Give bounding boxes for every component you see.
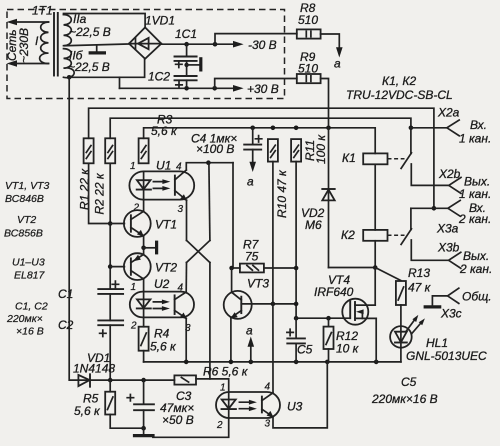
contact K1.1 lower (411, 164, 449, 185)
node U1 pin4 branch (206, 160, 211, 165)
wire pin4 branch down to crossing (209, 163, 210, 241)
svg-text:1: 1 (220, 383, 226, 394)
contact K1.1 upper (410, 128, 412, 154)
wire center tap to bridge left vertex (65, 44, 130, 46)
svg-text:47 к: 47 к (408, 281, 432, 295)
capacitor C5 (295, 318, 297, 338)
wire X3a (411, 207, 448, 209)
svg-text:R4: R4 (154, 327, 170, 341)
svg-text:510: 510 (298, 62, 318, 76)
svg-text:ВС846В: ВС846В (5, 193, 44, 205)
transformer secondary winding IIb (64, 49, 75, 78)
svg-text:Вх.: Вх. (470, 118, 487, 132)
resistor R7 (232, 267, 240, 269)
crossing wires (187, 240, 210, 262)
svg-text:IRF640: IRF640 (314, 285, 354, 299)
wire U1 pin4 to R7 column (186, 163, 233, 170)
svg-text:1С2: 1С2 (148, 70, 170, 84)
svg-text:Вых.: Вых. (463, 249, 489, 263)
polarity + (1C1) (176, 61, 182, 67)
transformer core (53, 13, 55, 76)
capacitor C1 (98, 288, 123, 290)
U2 phototransistor (174, 295, 176, 314)
wire secondary bottom to bridge bottom (69, 59, 144, 78)
contact K1.1 arm (401, 153, 411, 169)
svg-text:220мк×16 В: 220мк×16 В (371, 392, 438, 406)
svg-text:1 кан.: 1 кан. (459, 132, 491, 146)
arrow -30V (233, 41, 244, 48)
svg-text:С2: С2 (58, 318, 74, 332)
capacitor C2 (98, 319, 123, 321)
wire R11 column down (295, 162, 297, 318)
wire VT3 base to R11 column (241, 303, 296, 305)
svg-text:ВС856В: ВС856В (4, 228, 43, 240)
resistor R4 (139, 327, 149, 351)
wire crossing down to R6 node (209, 263, 211, 379)
svg-text:100 к: 100 к (314, 134, 328, 164)
wire primary top (16, 21, 49, 23)
resistor R11 (291, 139, 301, 162)
node caps midpoint stub (184, 63, 188, 67)
wire secondary top to bridge (64, 14, 146, 28)
common rail (144, 361, 401, 363)
relay coil K2 (363, 230, 387, 241)
node +30V riser (212, 86, 217, 91)
svg-text:×50 В: ×50 В (162, 413, 194, 427)
wire drain node to R13 (375, 268, 401, 281)
svg-text:С1, С2: С1, С2 (15, 301, 48, 313)
wire bus 2 (R2 to X2a column) (110, 118, 411, 138)
node rail VT3 emitter (229, 360, 234, 365)
node rail VT4 source (374, 360, 379, 365)
svg-text:С5: С5 (401, 375, 417, 389)
node: secondary bottom junction (67, 75, 72, 80)
svg-text:VT2: VT2 (17, 214, 36, 226)
wire U3 pin2 to chassis (153, 418, 229, 437)
svg-text:U1: U1 (156, 159, 171, 173)
wire VD1 to R6 (90, 379, 174, 381)
center tap stub (96, 45, 98, 52)
arrow node a (top) (336, 47, 343, 57)
svg-text:10 к: 10 к (336, 342, 360, 356)
resistor R10 (268, 139, 278, 162)
wire -30V to R8 (215, 34, 297, 45)
svg-text:~22,5 В: ~22,5 В (69, 25, 111, 39)
node rail R12 (325, 360, 330, 365)
node R7 right (294, 266, 299, 271)
dashed actuator link K1 (388, 158, 405, 160)
node C4 on bus 3 (250, 126, 255, 131)
diode VD1 (78, 375, 89, 386)
chassis terminal (143, 428, 145, 435)
svg-text:R6 5,6 к: R6 5,6 к (203, 365, 249, 379)
dashed actuator link K2 (388, 234, 405, 236)
node C3 top (141, 378, 146, 383)
svg-text:R2 22 к: R2 22 к (93, 172, 107, 214)
U3 coupling arrows (239, 402, 251, 409)
contact K2.1 lower (411, 240, 448, 260)
svg-text:U3: U3 (287, 400, 303, 414)
svg-text:4: 4 (176, 162, 182, 173)
terminal X3a fork (448, 200, 460, 216)
bridge rectifier 1VD1 (129, 27, 161, 58)
resistor R3 (139, 138, 149, 163)
U2 LED (143, 292, 145, 309)
wire +30V to R9 (215, 79, 297, 89)
svg-text:I: I (35, 34, 39, 48)
svg-text:U1–U3: U1–U3 (12, 257, 45, 269)
wire VT2 emitter to U2 pin1 (143, 279, 145, 291)
wire R2 column upper (109, 163, 111, 289)
resistor R13 (396, 281, 406, 305)
svg-text:1С1: 1С1 (175, 27, 197, 41)
svg-text:4: 4 (265, 382, 271, 393)
wire R6 to U3 pin1 (196, 379, 229, 392)
capacitor C3 (143, 380, 145, 404)
node R10 on bus 3 (271, 126, 276, 131)
wire C1 to C2 (109, 294, 111, 321)
svg-text:EL817: EL817 (14, 270, 46, 282)
svg-text:VT1: VT1 (155, 218, 177, 232)
wire VD2 to drain junction (329, 267, 376, 269)
midpoint terminal bar (199, 57, 202, 71)
wire U1 pin3 down to crossing (186, 200, 188, 240)
svg-text:К2: К2 (341, 228, 355, 242)
junction stub terminal (144, 247, 157, 249)
node R5 top (108, 378, 113, 383)
transistor VT1 (124, 210, 151, 237)
svg-text:VT1, VT3: VT1, VT3 (5, 180, 50, 192)
U3 LED (228, 392, 230, 409)
resistor R5 (109, 380, 111, 392)
diode VD2 (328, 128, 330, 268)
node X3a junction (432, 206, 437, 211)
svg-text:2 кан.: 2 кан. (458, 212, 491, 226)
resistor R9 (297, 74, 321, 83)
svg-text:~22,5 В: ~22,5 В (68, 60, 110, 74)
node VT2 base (108, 264, 113, 269)
wire X2a (411, 127, 447, 129)
transistor VT2 (124, 253, 151, 280)
U1 coupling arrows (153, 182, 165, 189)
svg-text:X3b: X3b (437, 241, 460, 255)
svg-text:4: 4 (178, 283, 184, 294)
wire K1 to K2 coil (374, 164, 376, 230)
svg-text:3: 3 (178, 204, 184, 215)
svg-text:R10 47 к: R10 47 к (275, 169, 289, 218)
mains terminal arrows (Сеть ~230В) (7, 19, 18, 26)
wire VT3 collector (231, 268, 233, 292)
wire C2 down to VD1 line (109, 325, 111, 380)
wire bus 1 (R1 to X3a column) (89, 108, 434, 208)
wire VT4 source to rail (375, 318, 377, 362)
svg-text:а: а (247, 175, 254, 189)
node rail C5 (294, 360, 299, 365)
wire VT1 emitter down (143, 236, 145, 254)
arrow node a (C4) (249, 162, 256, 172)
HL1 emission arrows (406, 319, 421, 333)
wire U1 pin4 column down to R7 (232, 163, 234, 268)
resistor R1 (84, 138, 94, 163)
svg-text:VT2: VT2 (155, 261, 177, 275)
node VT3 base / R11 (294, 302, 299, 307)
svg-text:М6: М6 (305, 218, 322, 232)
svg-text:×100 В: ×100 В (196, 142, 234, 156)
node rail a-arrow (249, 360, 254, 365)
arrow node a (VT3) (250, 344, 252, 362)
svg-text:U2: U2 (154, 277, 170, 291)
capacitor 1C1 (186, 44, 188, 56)
svg-text:С5: С5 (297, 343, 313, 357)
wire U2 pin3 to common rail (185, 318, 187, 362)
svg-text:X3а: X3а (436, 222, 459, 236)
node VT1 base (108, 221, 113, 226)
svg-text:220мк×: 220мк× (6, 313, 43, 325)
wire R7 right to R11 column (264, 267, 296, 269)
resistor R2 (105, 138, 115, 163)
resistor R6 (174, 375, 196, 384)
svg-text:TRU-12VDC-SB-CL: TRU-12VDC-SB-CL (346, 88, 453, 102)
wire R4 to common rail start (143, 351, 145, 362)
resistor R12 (324, 327, 334, 349)
bridge internal diode (129, 43, 161, 45)
wire VT3 emitter to rail (230, 318, 232, 362)
node 1C2 bottom (184, 86, 189, 91)
terminal X3c bar (424, 305, 442, 308)
resistor R8 (297, 29, 321, 38)
svg-text:2: 2 (216, 420, 223, 431)
node VD2 on bus 3 (326, 126, 331, 131)
wire U3 pin3 to rail (273, 362, 327, 428)
wire long left vertical from transformer (69, 77, 90, 380)
svg-text:1: 1 (131, 282, 137, 293)
wire VT1 collector to U1 pin2 (143, 200, 145, 212)
wire gate net (296, 317, 350, 319)
svg-text:2 кан.: 2 кан. (459, 262, 492, 276)
svg-text:1Т1: 1Т1 (32, 4, 53, 18)
svg-text:X2b: X2b (438, 167, 461, 181)
terminal X2b fork (449, 177, 461, 193)
wire R13 to HL1 (400, 305, 402, 362)
transformer primary winding I (40, 22, 49, 64)
svg-text:1N4148: 1N4148 (73, 362, 115, 376)
svg-text:VT3: VT3 (247, 277, 269, 291)
terminal X3c fork (448, 288, 459, 303)
svg-text:Общ.: Общ. (462, 290, 492, 304)
arrow +30V (233, 85, 244, 92)
wire crossing to U2 pin4 (185, 263, 187, 293)
wire drain node to VT4 drain (356, 268, 375, 306)
node VT3 base / R10 (271, 302, 276, 307)
wire +30V rail (120, 87, 236, 89)
optocoupler U2 body (130, 292, 194, 318)
wire R5 bottom to chassis node (110, 415, 143, 429)
wire bus 3 (R3 to relay supply) (144, 128, 376, 154)
wire R9 down to relay rail (321, 79, 329, 128)
wire R10 column down (272, 162, 274, 304)
U2 coupling arrows (153, 302, 164, 309)
svg-text:75: 75 (245, 250, 259, 264)
node -30V riser (213, 42, 218, 47)
capacitor C4 (252, 128, 254, 145)
svg-text:X3с: X3с (440, 307, 462, 321)
svg-text:3: 3 (265, 419, 271, 430)
terminal X2a fork (447, 120, 459, 136)
transistor VT3 (mirrored) (224, 291, 252, 319)
svg-text:5,6 к: 5,6 к (150, 340, 177, 354)
node C5 top (294, 316, 299, 321)
node VT1-VT2 junction (141, 246, 146, 251)
polarity + (C4) (255, 136, 261, 142)
svg-text:К1, К2: К1, К2 (382, 74, 416, 88)
transformer secondary winding IIa (64, 15, 72, 46)
svg-text:~230В: ~230В (17, 28, 31, 63)
wire VT2 base (110, 266, 124, 268)
svg-text:5,6 к: 5,6 к (74, 404, 101, 418)
node R11 on bus 3 (294, 126, 299, 131)
center tap terminal bar (89, 51, 106, 54)
node R7 left (229, 266, 234, 271)
node rail U2 pin3 (184, 360, 189, 365)
contact K2.1 arm (401, 229, 411, 245)
svg-text:а: а (334, 57, 341, 71)
svg-text:+30 В: +30 В (247, 82, 279, 96)
svg-text:1: 1 (130, 161, 136, 172)
svg-text:GNL-5013UЕС: GNL-5013UЕС (406, 349, 487, 363)
LED HL1 (390, 326, 412, 348)
wire R10 column to U3 pin4 (272, 304, 274, 393)
svg-text:510: 510 (298, 13, 318, 27)
svg-text:5,6 к: 5,6 к (151, 124, 178, 138)
relay coil K1 (363, 153, 387, 164)
optocoupler U1 body (129, 171, 194, 199)
wire X3c (432, 296, 447, 306)
transistor VT4 MOSFET (342, 299, 368, 325)
svg-text:HL1: HL1 (426, 336, 448, 350)
svg-text:×16 В: ×16 В (16, 326, 44, 338)
svg-text:1VD1: 1VD1 (145, 14, 175, 28)
svg-text:-30 В: -30 В (248, 38, 277, 52)
svg-text:2: 2 (133, 203, 140, 214)
terminal X3b fork (449, 252, 461, 268)
wire primary bottom (16, 63, 49, 65)
svg-text:X2а: X2а (437, 106, 460, 120)
U1 phototransistor (174, 176, 176, 195)
node 1C1 top (184, 42, 189, 47)
svg-text:R13: R13 (408, 266, 430, 280)
U3 phototransistor (261, 397, 263, 413)
contact K2.1 upper (410, 208, 412, 229)
wire K2 coil to drain node (374, 241, 376, 268)
wire VT1 base (110, 223, 124, 225)
node chassis (141, 426, 146, 431)
optocoupler U3 body (216, 392, 280, 418)
node R12 top (326, 316, 331, 321)
svg-text:К1: К1 (342, 151, 356, 165)
svg-text:а: а (246, 324, 253, 338)
svg-text:1 кан.: 1 кан. (459, 187, 491, 201)
power unit dashed enclosure (7, 10, 285, 99)
midpoint stub wire (187, 64, 201, 66)
wire R8 to node a (321, 34, 340, 50)
node X2a junction (409, 126, 414, 131)
wire bridge output -30V (161, 43, 235, 45)
svg-text:С1: С1 (58, 287, 73, 301)
wire R1 bottom to VT1 base node (89, 163, 111, 223)
capacitor 1C2 (175, 75, 197, 77)
node drain junction (373, 265, 378, 270)
polarity + (1C2) (176, 82, 182, 88)
wire jog to +30V rail (119, 77, 121, 88)
U1 LED (143, 171, 145, 189)
svg-text:2: 2 (130, 321, 137, 332)
